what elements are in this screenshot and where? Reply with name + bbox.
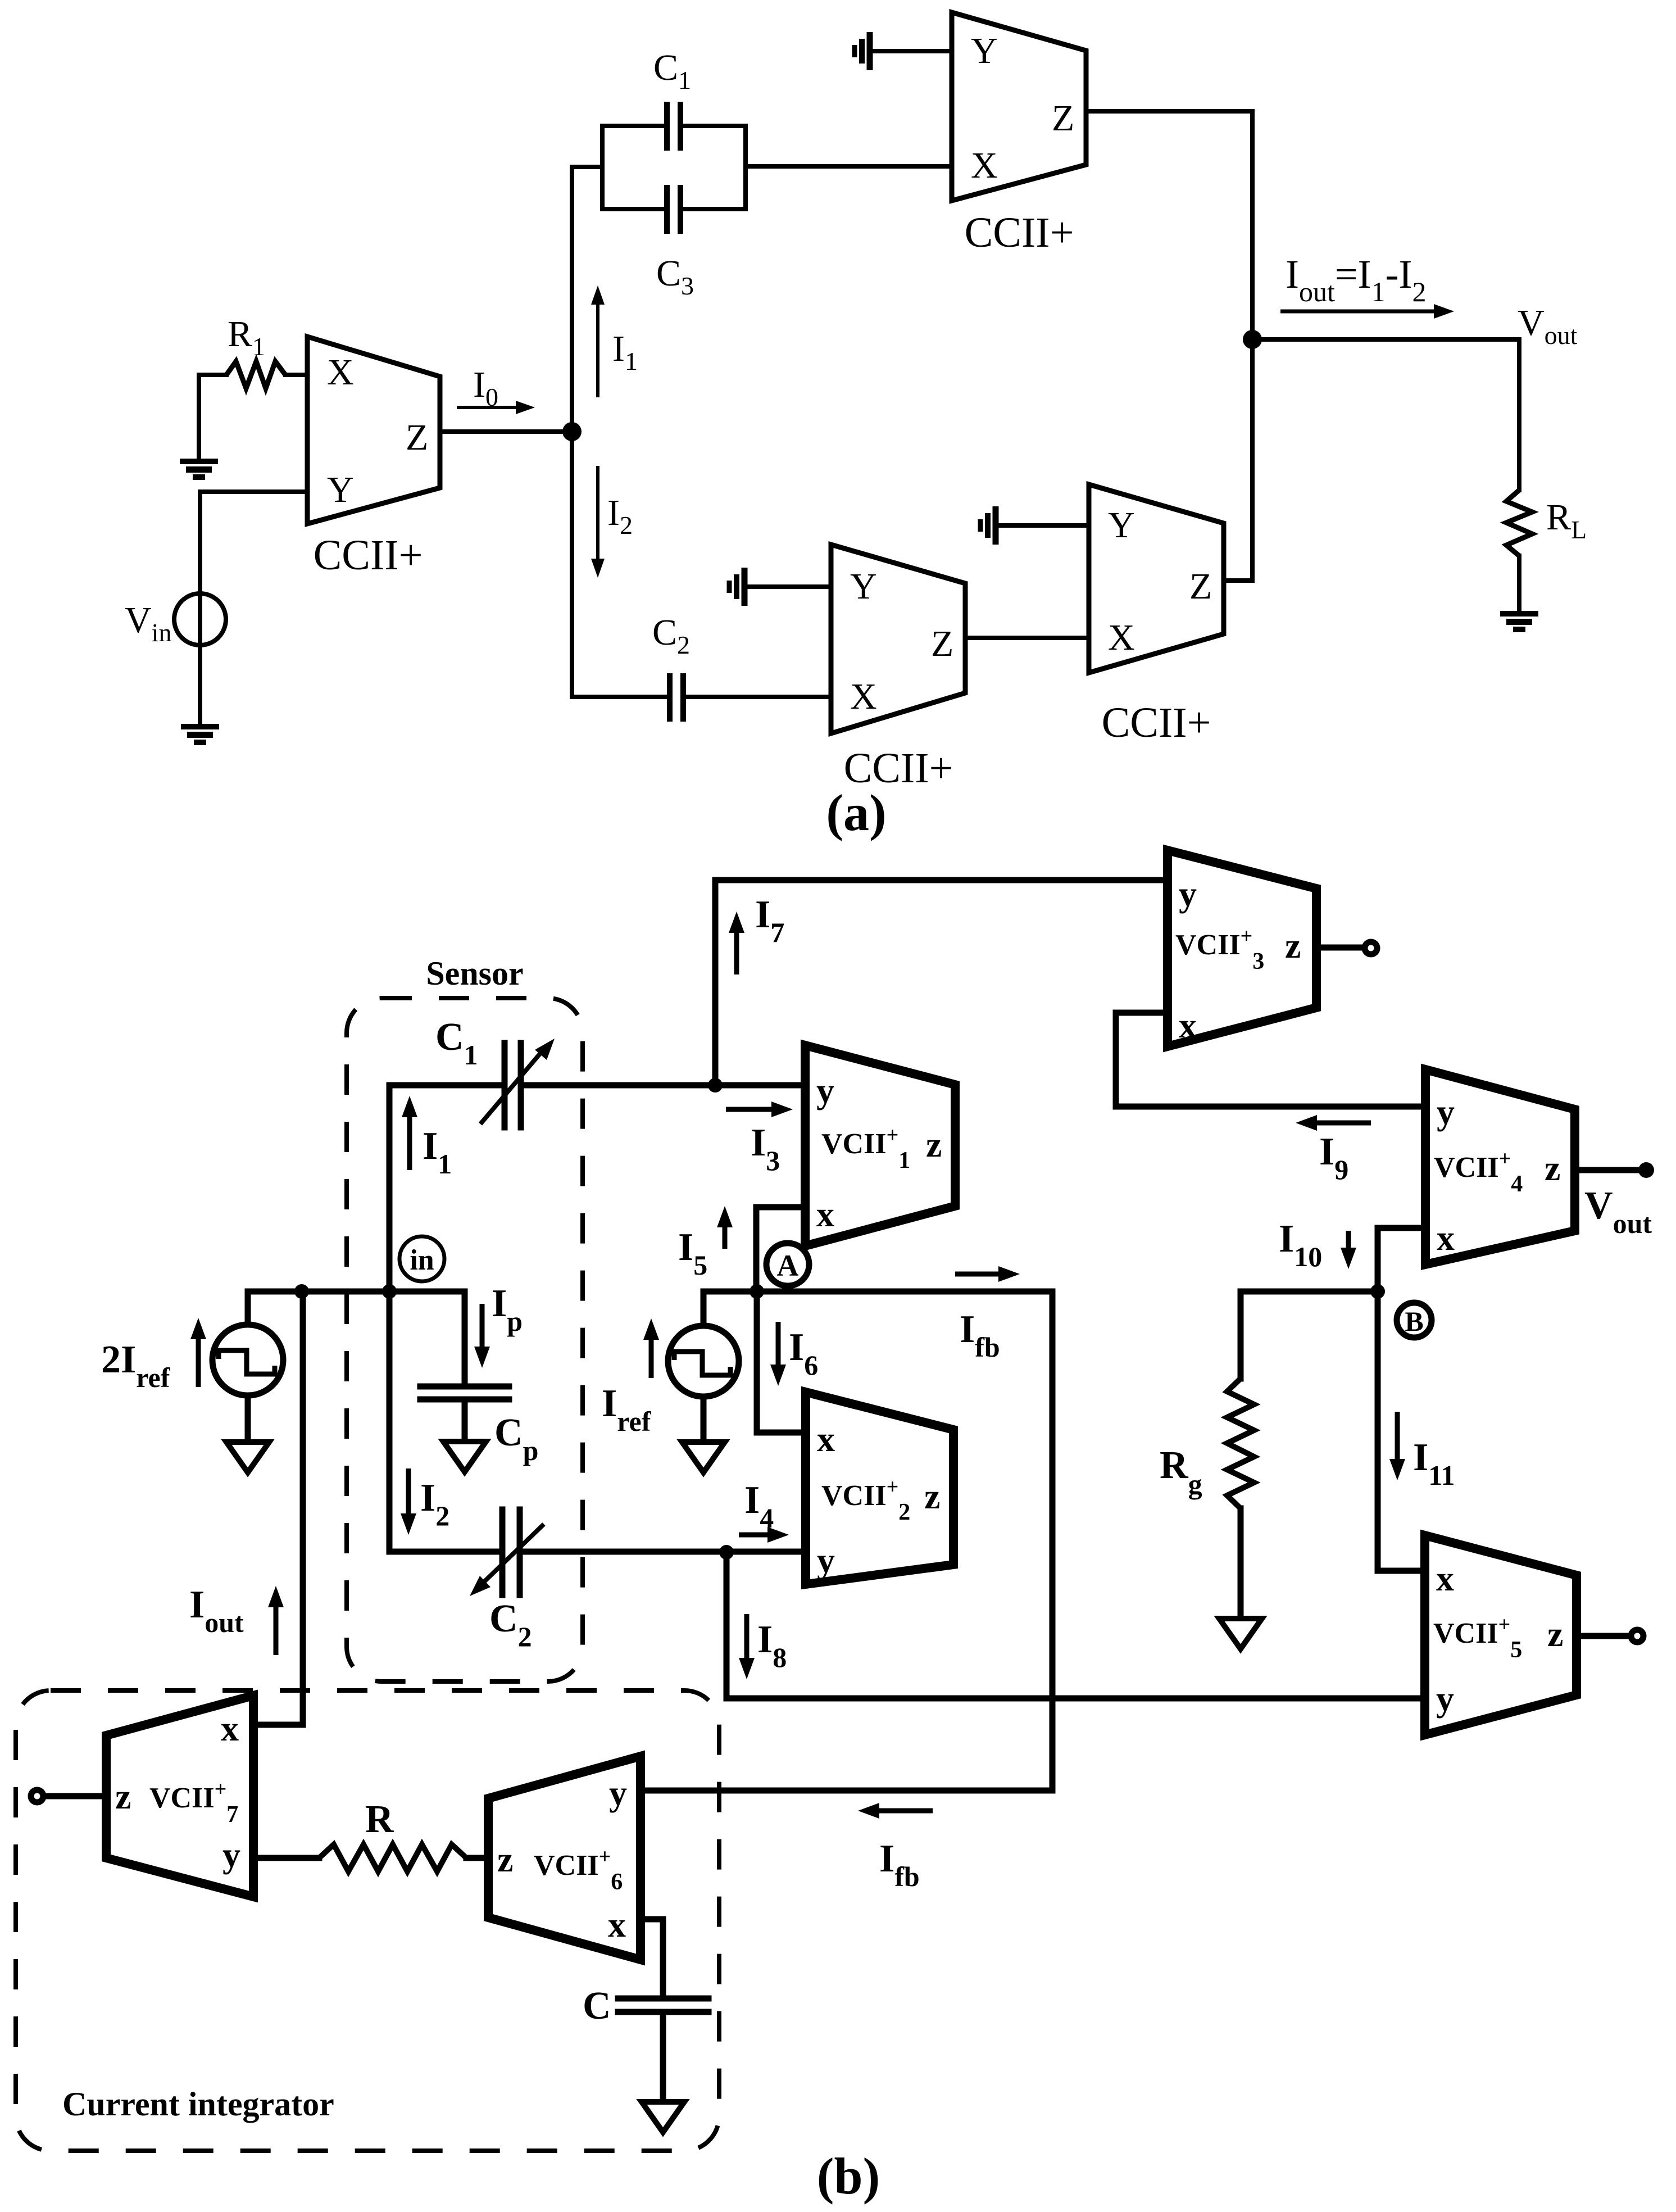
current arrow I9 [1315, 1121, 1371, 1126]
current arrow I7 [734, 931, 739, 974]
current arrow Ip [480, 1304, 485, 1349]
wire: node B to Rg [1241, 1291, 1378, 1379]
current arrow I2 [596, 466, 599, 561]
current arrow I4 [739, 1533, 770, 1538]
svg-text:CCII+: CCII+ [314, 532, 423, 579]
wire: in-node horizontal [248, 1289, 465, 1295]
svg-text:Y: Y [850, 566, 877, 607]
op-amp VCII+3 [1168, 850, 1316, 1046]
op-amp VCII+5 [1425, 1535, 1577, 1735]
svg-text:z: z [497, 1839, 513, 1879]
svg-text:Current integrator: Current integrator [62, 2086, 334, 2123]
op-amp VCII+6 [488, 1756, 641, 1960]
ground (RL) [1500, 611, 1538, 632]
capacitor C1 (b) variable [505, 1043, 521, 1127]
wire: I7 vertical and top run to y of VCII3 [715, 880, 1168, 1085]
svg-text:Z: Z [1189, 566, 1212, 607]
wire: node A horizontal [703, 1289, 1052, 1295]
op-amp VCII+2 [806, 1392, 953, 1584]
svg-text:y: y [222, 1835, 240, 1875]
op-amp CCII+ U2 [952, 12, 1086, 201]
source Iref [701, 1291, 707, 1326]
svg-text:C: C [583, 1984, 611, 2028]
svg-text:(b): (b) [817, 2147, 880, 2205]
svg-text:x: x [221, 1708, 239, 1748]
arrow Iref [649, 1338, 654, 1378]
current arrow I2 (b) [406, 1468, 411, 1516]
node A circle label [766, 1243, 809, 1286]
ground (C) [642, 2102, 684, 2132]
wire: z of VCII5 to terminal [1577, 1633, 1629, 1639]
svg-text:x: x [1436, 1558, 1454, 1598]
node junction I8 [719, 1545, 734, 1560]
wire: Rg to ground [1238, 1508, 1244, 1619]
wire: Y of U1 to Vin [200, 489, 307, 494]
svg-text:X: X [971, 145, 998, 186]
current arrow Ifb top [955, 1272, 1001, 1277]
svg-text:y: y [817, 1540, 835, 1580]
node in circle label [399, 1236, 444, 1281]
node A junction [750, 1284, 764, 1299]
svg-text:y: y [609, 1773, 627, 1813]
svg-text:x: x [816, 1194, 834, 1234]
parallel block frame for C1,C3 [600, 126, 605, 209]
op-amp CCII+ U1 [307, 337, 440, 524]
svg-text:z: z [926, 1125, 942, 1164]
node B circle label [1397, 1303, 1432, 1338]
ground (Rg) [1219, 1619, 1262, 1649]
svg-text:Y: Y [1108, 505, 1135, 546]
svg-text:y: y [1179, 874, 1197, 914]
dashed box Sensor [347, 998, 583, 1681]
svg-text:y: y [816, 1071, 834, 1110]
wire: Vin vertical [198, 492, 202, 724]
svg-text:y: y [1437, 1092, 1455, 1132]
wire: node N2 to Vout corner and RL [1252, 339, 1519, 490]
ground (R1 left) [180, 459, 218, 480]
node B junction [1370, 1284, 1385, 1299]
capacitor C1 [667, 102, 680, 151]
current arrow I0 [457, 406, 518, 409]
terminal (z of VCII5) [1631, 1630, 1643, 1642]
source Vin [174, 593, 226, 645]
wire: node N1 up to C1/C3 block [572, 167, 602, 432]
wire: Z of U2 to output node N2 [1086, 111, 1252, 339]
svg-text:CCII+: CCII+ [1102, 699, 1211, 746]
ground (Vin) [181, 724, 219, 745]
svg-text:(a): (a) [826, 784, 886, 841]
arrow 2Iref [196, 1337, 201, 1387]
wire: x of VCII1 step down to node A [756, 1207, 805, 1291]
node junction I7 [708, 1078, 723, 1093]
source 2Iref [245, 1291, 251, 1325]
svg-text:x: x [1437, 1218, 1455, 1258]
wire: Z of U3 to X of CCII+ U4 [965, 636, 1089, 640]
wire: node A down to x of VCII2 [757, 1291, 806, 1433]
capacitor C2 (a) [670, 673, 683, 722]
svg-text:z: z [1547, 1614, 1563, 1654]
wire: RL to ground [1517, 556, 1521, 611]
wire: x of VCII4 to node B [1378, 1228, 1425, 1291]
wire: C to ground [660, 2014, 666, 2102]
ground (Cp) [443, 1442, 486, 1472]
svg-text:CCII+: CCII+ [965, 209, 1074, 256]
svg-text:x: x [1179, 1005, 1197, 1045]
terminal Vout (b) [1638, 1162, 1654, 1178]
svg-text:z: z [115, 1776, 131, 1816]
wire: Iout vertical to x of VCII7 [253, 1291, 303, 1725]
svg-text:x: x [608, 1905, 626, 1944]
svg-text:A: A [777, 1249, 799, 1282]
svg-text:Y: Y [971, 30, 998, 71]
wire: ground to Y of U2 [870, 49, 952, 53]
resistor R [319, 1844, 466, 1871]
svg-text:Sensor: Sensor [426, 955, 523, 992]
op-amp CCII+ U4 [1089, 484, 1224, 673]
current arrow Iout (b) [274, 1605, 279, 1655]
ground (Y of U2) [855, 32, 870, 70]
current arrow Iout [1280, 310, 1436, 314]
wire: I8 run to y of VCII5 [726, 1552, 1425, 1698]
capacitor C [618, 1998, 708, 2012]
wire: feedback right vertical to y of VCII6 [641, 1291, 1052, 1791]
node in junction [382, 1284, 397, 1299]
wire: y of VCII7 to R [253, 1855, 319, 1861]
wire: Z of U1 to node N1 [440, 429, 572, 434]
terminal (z of VCII7) [31, 1790, 43, 1802]
wire: block to X of CCII+ U2 [746, 164, 952, 169]
resistor R1 [199, 373, 226, 377]
node N1 junction [562, 422, 582, 441]
wire: C2 row (b) [389, 1549, 806, 1555]
wire: node B down to x of VCII5 [1378, 1291, 1425, 1571]
current arrow I3 [726, 1107, 774, 1112]
terminal (z of VCII3) [1365, 942, 1377, 954]
wire: z of VCII7 to terminal [47, 1793, 106, 1799]
current arrow Ifb bottom [877, 1808, 933, 1814]
capacitor C2 (b) variable [502, 1510, 520, 1595]
svg-text:X: X [850, 676, 877, 717]
node junction (Iout wire) [294, 1284, 309, 1299]
resistor Rg [1227, 1379, 1254, 1508]
wire: R1 to X of CCII+ U1 [285, 373, 307, 377]
svg-text:Z: Z [931, 623, 953, 664]
svg-text:Y: Y [327, 469, 354, 510]
wire: R to z of VCII6 [466, 1855, 488, 1861]
capacitor Cp branch [462, 1291, 468, 1385]
op-amp VCII+7 [106, 1696, 253, 1897]
current arrow I8 [744, 1614, 750, 1660]
wire: ground to Y of U4 [996, 523, 1089, 528]
ground (Iref) [682, 1442, 725, 1472]
ground (Y of U3) [729, 568, 744, 606]
svg-text:B: B [1405, 1306, 1423, 1337]
wire: R1 left terminal to ground [197, 375, 201, 459]
wire: z of VCII4 to Vout terminal [1575, 1167, 1638, 1173]
svg-text:X: X [1108, 617, 1135, 658]
wire: Z of U4 up to node N2 [1224, 339, 1252, 581]
svg-text:Z: Z [1052, 98, 1074, 139]
svg-text:Z: Z [406, 417, 428, 458]
wire: node N1 down to C2 [572, 432, 667, 697]
ground (Y of U4) [980, 506, 996, 545]
current arrow I5 [723, 1225, 728, 1249]
svg-text:X: X [327, 352, 354, 393]
dashed box Current integrator [16, 1690, 719, 2151]
node N2 junction [1243, 330, 1262, 349]
current arrow I6 [776, 1322, 781, 1367]
svg-text:x: x [817, 1419, 835, 1459]
wire: sensor left vertical [387, 1085, 393, 1552]
current arrow I1 (b) [407, 1115, 412, 1170]
svg-text:in: in [410, 1244, 434, 1276]
svg-text:R: R [365, 1798, 394, 1841]
wire: C2 to X of CCII+ U3 [686, 695, 831, 699]
capacitor C3 [667, 185, 680, 234]
wire: C1 row (b) [389, 1082, 805, 1089]
ground (2Iref) [226, 1442, 269, 1472]
wire: x of VCII3 step down to y of VCII4 [1116, 1013, 1425, 1107]
svg-text:z: z [924, 1476, 940, 1516]
svg-text:z: z [1285, 926, 1301, 966]
current arrow I1 [596, 302, 599, 397]
current arrow I10 [1346, 1231, 1351, 1250]
op-amp VCII+1 [805, 1045, 955, 1246]
wire: ground to Y of U3 [744, 584, 831, 589]
wire: z of VCII3 to terminal [1316, 945, 1362, 951]
resistor RL [1506, 490, 1532, 556]
svg-text:z: z [1545, 1148, 1560, 1188]
current arrow I11 [1395, 1412, 1400, 1461]
op-amp VCII+4 [1425, 1069, 1575, 1264]
wire: x of VCII6 to C [641, 1919, 663, 1997]
op-amp CCII+ U3 [831, 545, 965, 733]
svg-text:y: y [1436, 1679, 1454, 1719]
